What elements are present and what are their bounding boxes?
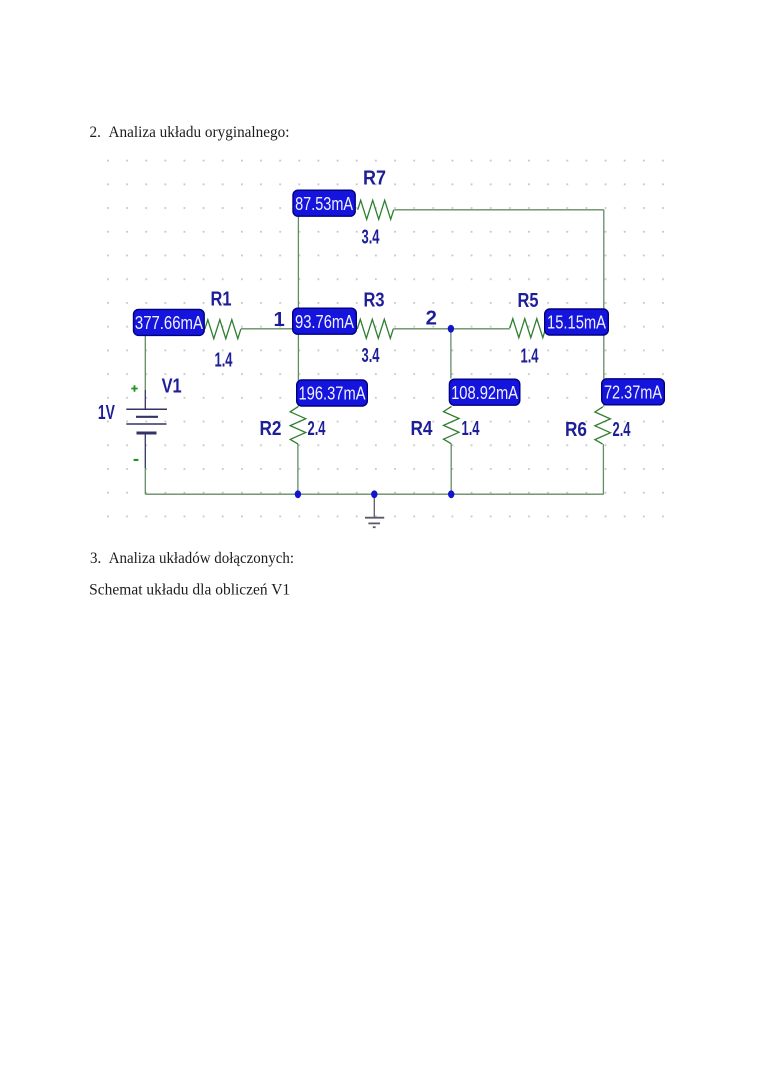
- wire right branch lower: [602, 444, 604, 494]
- wire right branch upper: [603, 210, 605, 407]
- current label 93.76mA: [293, 308, 357, 334]
- svg-text:R2: R2: [260, 418, 282, 440]
- wire node2 rail: [393, 328, 510, 330]
- battery minus sign: [134, 459, 139, 461]
- svg-text:2. Analiza układu oryginalneg: 2. Analiza układu oryginalnego:: [90, 124, 290, 141]
- svg-text:R5: R5: [518, 290, 539, 312]
- junction dot ground: [371, 490, 377, 498]
- wire main rail left: [145, 328, 205, 330]
- grid dots: [107, 160, 666, 519]
- svg-text:196.37mA: 196.37mA: [299, 383, 367, 404]
- svg-text:V1: V1: [162, 376, 182, 398]
- wire node2 vertical: [450, 329, 452, 379]
- svg-text:Schemat układu dla obliczeń V1: Schemat układu dla obliczeń V1: [89, 582, 290, 599]
- svg-text:R1: R1: [211, 289, 232, 311]
- svg-text:1: 1: [274, 309, 285, 331]
- resistor R2: [290, 407, 306, 444]
- wire below R4: [450, 444, 452, 495]
- current label 377.66mA: [134, 309, 205, 335]
- resistor R4: [444, 406, 460, 443]
- wire rail to right branch: [546, 328, 604, 330]
- current label 72.37mA: [602, 379, 665, 405]
- svg-text:2.4: 2.4: [613, 419, 631, 441]
- svg-text:R6: R6: [565, 419, 587, 441]
- svg-text:1.4: 1.4: [462, 418, 480, 440]
- junction dot R2 bottom: [295, 490, 301, 498]
- wire below R2: [297, 444, 299, 494]
- current label 15.15mA: [545, 309, 609, 335]
- svg-text:377.66mA: 377.66mA: [135, 312, 204, 333]
- svg-text:1.4: 1.4: [215, 350, 233, 372]
- wire left branch upper: [144, 329, 146, 390]
- svg-text:R3: R3: [364, 290, 385, 312]
- svg-text:87.53mA: 87.53mA: [295, 193, 354, 214]
- junction dot node2: [448, 325, 454, 333]
- svg-text:1.4: 1.4: [521, 346, 539, 368]
- svg-text:72.37mA: 72.37mA: [604, 381, 663, 402]
- current label 87.53mA: [293, 190, 355, 216]
- wire R7 top horizontal: [394, 209, 604, 211]
- battery plus sign: [131, 385, 137, 391]
- svg-text:108.92mA: 108.92mA: [451, 382, 519, 403]
- svg-text:3.4: 3.4: [362, 227, 380, 249]
- svg-text:2: 2: [426, 308, 437, 330]
- wire bottom rail: [145, 493, 604, 495]
- battery V1: [126, 390, 167, 468]
- svg-text:93.76mA: 93.76mA: [295, 311, 355, 332]
- resistor R5: [510, 319, 546, 338]
- junction dot R4 bottom: [448, 490, 454, 498]
- wire node1 vertical: [297, 206, 299, 407]
- current label 108.92mA: [449, 379, 519, 405]
- wire node1 rail: [241, 328, 357, 330]
- svg-text:15.15mA: 15.15mA: [547, 312, 607, 333]
- current label 196.37mA: [297, 380, 368, 406]
- resistor R6: [595, 407, 611, 444]
- svg-text:2.4: 2.4: [308, 418, 326, 440]
- resistor R1: [205, 320, 241, 339]
- svg-text:3.4: 3.4: [362, 345, 380, 367]
- svg-text:R7: R7: [363, 168, 386, 190]
- svg-text:3. Analiza układów dołączonyc: 3. Analiza układów dołączonych:: [90, 550, 294, 567]
- resistor R3: [357, 319, 393, 338]
- svg-text:1V: 1V: [98, 402, 115, 424]
- ground: [365, 494, 384, 527]
- resistor R7: [358, 200, 394, 219]
- wire left branch lower: [144, 468, 146, 494]
- svg-text:R4: R4: [411, 418, 434, 440]
